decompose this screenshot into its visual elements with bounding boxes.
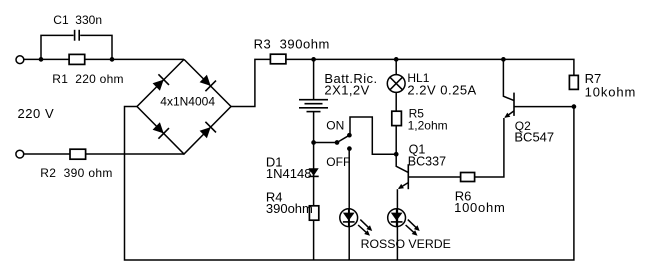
svg-text:2.2V 0.25A: 2.2V 0.25A bbox=[407, 82, 476, 97]
svg-text:10kohm: 10kohm bbox=[585, 84, 637, 99]
svg-text:1,2ohm: 1,2ohm bbox=[408, 119, 448, 133]
svg-text:220 V: 220 V bbox=[18, 106, 55, 121]
svg-text:BC337: BC337 bbox=[408, 154, 446, 168]
svg-text:C1 330n: C1 330n bbox=[53, 13, 102, 27]
svg-text:ON: ON bbox=[326, 119, 344, 133]
svg-text:R1 220 ohm: R1 220 ohm bbox=[52, 72, 123, 86]
svg-text:1N4148: 1N4148 bbox=[266, 166, 312, 181]
svg-text:R3 390ohm: R3 390ohm bbox=[254, 36, 330, 51]
svg-text:ROSSO VERDE: ROSSO VERDE bbox=[361, 237, 451, 251]
svg-text:4x1N4004: 4x1N4004 bbox=[160, 94, 215, 108]
svg-text:BC547: BC547 bbox=[514, 129, 554, 144]
svg-text:100ohm: 100ohm bbox=[454, 200, 505, 215]
svg-text:2X1,2V: 2X1,2V bbox=[324, 82, 369, 97]
svg-text:R2 390 ohm: R2 390 ohm bbox=[40, 166, 113, 180]
svg-text:OFF: OFF bbox=[326, 155, 350, 169]
svg-text:390ohm: 390ohm bbox=[266, 201, 313, 216]
